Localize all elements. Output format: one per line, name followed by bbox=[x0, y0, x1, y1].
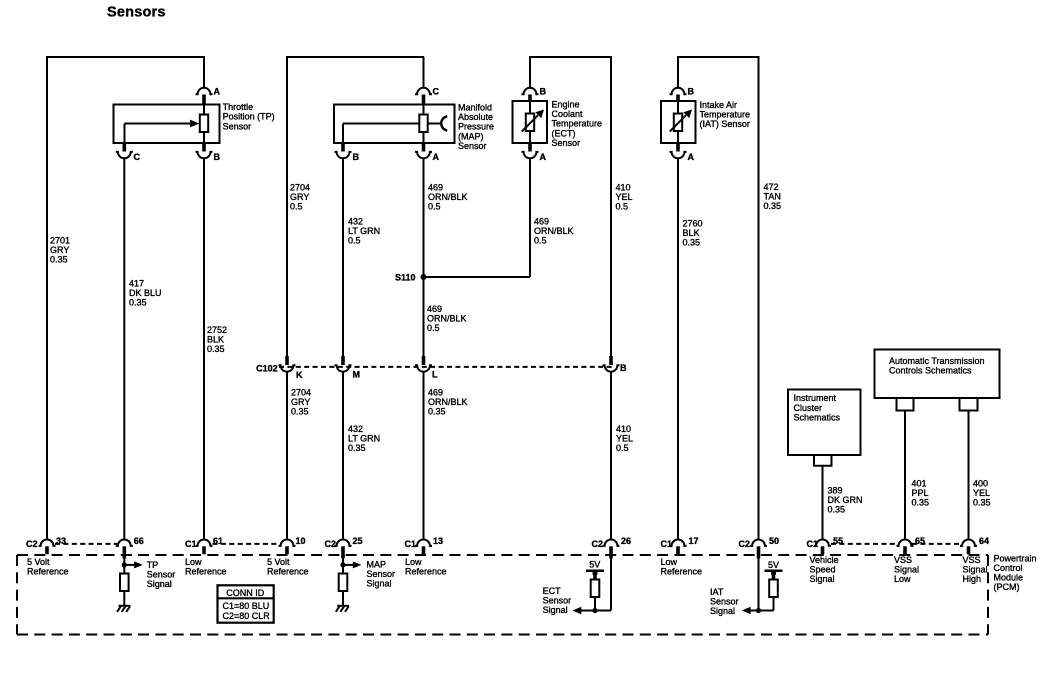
svg-text:33: 33 bbox=[56, 536, 66, 546]
svg-text:A: A bbox=[688, 152, 695, 162]
svg-text:B: B bbox=[214, 152, 221, 162]
svg-text:S110: S110 bbox=[395, 273, 416, 283]
svg-text:CONN ID: CONN ID bbox=[226, 588, 265, 598]
svg-text:L: L bbox=[432, 370, 438, 380]
svg-text:65: 65 bbox=[915, 536, 925, 546]
svg-text:2704GRY0.35: 2704GRY0.35 bbox=[291, 388, 311, 417]
svg-text:K: K bbox=[296, 370, 303, 380]
svg-text:50: 50 bbox=[769, 536, 779, 546]
svg-text:C1: C1 bbox=[661, 539, 673, 549]
svg-text:C1=80 BLU: C1=80 BLU bbox=[223, 601, 270, 611]
svg-text:10: 10 bbox=[296, 536, 306, 546]
svg-text:Sensors: Sensors bbox=[107, 5, 166, 21]
svg-text:B: B bbox=[353, 152, 360, 162]
svg-text:C102: C102 bbox=[256, 364, 278, 374]
svg-text:C2: C2 bbox=[739, 539, 751, 549]
svg-text:C2: C2 bbox=[325, 539, 337, 549]
svg-text:A: A bbox=[540, 152, 547, 162]
svg-text:472TAN0.35: 472TAN0.35 bbox=[764, 182, 782, 211]
svg-text:2701GRY0.35: 2701GRY0.35 bbox=[50, 236, 70, 265]
svg-text:64: 64 bbox=[979, 536, 989, 546]
svg-text:A: A bbox=[433, 152, 440, 162]
svg-text:C2: C2 bbox=[592, 539, 604, 549]
svg-text:25: 25 bbox=[353, 536, 363, 546]
svg-text:M: M bbox=[353, 370, 361, 380]
svg-text:401PPL0.35: 401PPL0.35 bbox=[912, 479, 930, 508]
svg-text:VehicleSpeedSignal: VehicleSpeedSignal bbox=[810, 555, 839, 584]
svg-text:C2: C2 bbox=[26, 539, 38, 549]
svg-text:C2=80 CLR: C2=80 CLR bbox=[223, 611, 271, 621]
svg-text:C1: C1 bbox=[807, 539, 819, 549]
svg-text:B: B bbox=[540, 87, 547, 97]
svg-text:66: 66 bbox=[134, 536, 144, 546]
svg-text:A: A bbox=[214, 87, 221, 97]
svg-text:61: 61 bbox=[213, 536, 223, 546]
svg-text:B: B bbox=[620, 363, 627, 373]
svg-text:B: B bbox=[688, 87, 695, 97]
svg-text:C1: C1 bbox=[185, 539, 197, 549]
svg-text:13: 13 bbox=[433, 536, 443, 546]
svg-text:400YEL0.35: 400YEL0.35 bbox=[973, 479, 991, 508]
svg-text:C: C bbox=[134, 152, 141, 162]
svg-text:5V: 5V bbox=[768, 560, 779, 570]
svg-text:55: 55 bbox=[833, 536, 843, 546]
svg-text:Automatic TransmissionControls: Automatic TransmissionControls Schematic… bbox=[889, 356, 985, 375]
svg-text:5V: 5V bbox=[589, 560, 600, 570]
svg-text:C1: C1 bbox=[405, 539, 417, 549]
svg-text:26: 26 bbox=[621, 536, 631, 546]
svg-text:17: 17 bbox=[689, 536, 699, 546]
svg-text:C: C bbox=[433, 87, 440, 97]
